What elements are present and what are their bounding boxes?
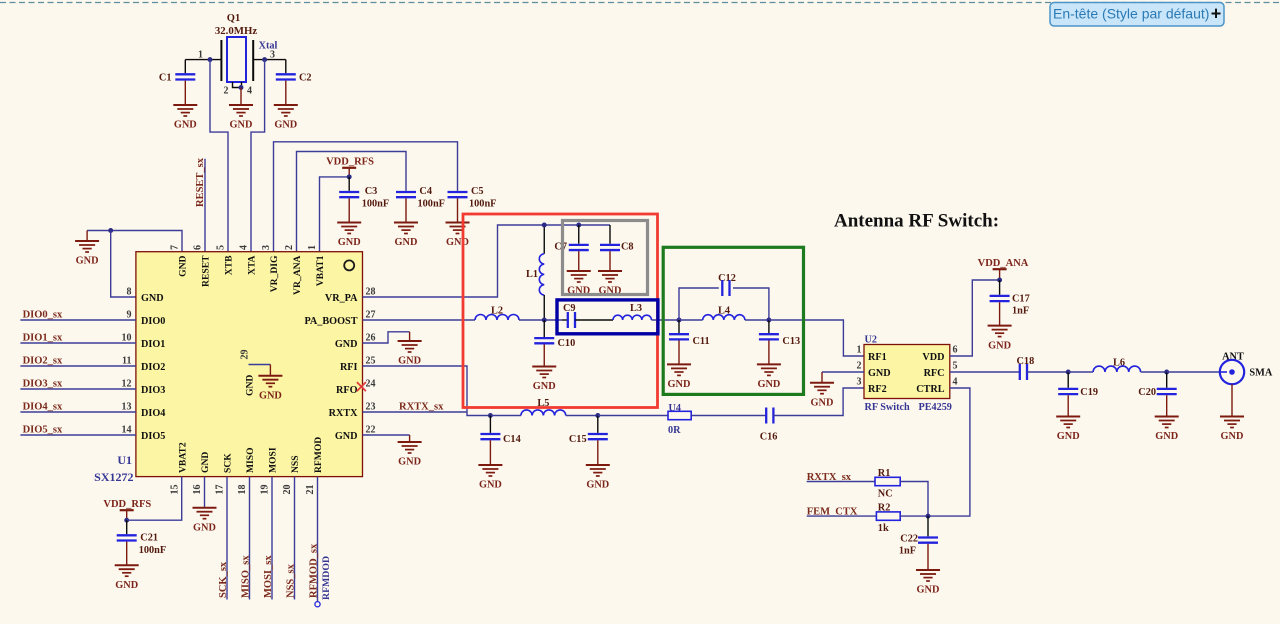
svg-text:DIO0_sx: DIO0_sx bbox=[23, 310, 63, 321]
wire pin3 VR_DIG to C5 bbox=[274, 142, 458, 252]
ground C13 bbox=[768, 341, 770, 365]
page top dashed border bbox=[0, 2, 1280, 4]
svg-text:C19: C19 bbox=[1080, 387, 1098, 398]
wire pin6 RESET bbox=[204, 159, 206, 252]
svg-text:5: 5 bbox=[953, 361, 958, 372]
header style button bbox=[1050, 3, 1224, 27]
svg-text:2: 2 bbox=[857, 361, 862, 372]
svg-text:GND: GND bbox=[868, 368, 891, 379]
node VDD_RFS bbox=[347, 174, 352, 179]
svg-text:16: 16 bbox=[192, 485, 203, 495]
wire DIO1_sx bbox=[20, 342, 135, 344]
ground U1 pin16 bbox=[193, 507, 217, 509]
svg-text:21: 21 bbox=[305, 485, 316, 495]
svg-text:GND: GND bbox=[586, 480, 609, 491]
svg-text:24: 24 bbox=[366, 379, 376, 390]
svg-text:3: 3 bbox=[857, 377, 862, 388]
svg-text:DIO2_sx: DIO2_sx bbox=[23, 356, 63, 367]
wire pin28 VR_PA to C7/C8 rail bbox=[363, 225, 611, 297]
svg-text:SMA: SMA bbox=[1249, 368, 1272, 379]
svg-text:C5: C5 bbox=[471, 186, 484, 197]
svg-text:GND: GND bbox=[259, 390, 282, 401]
wire RFMOD bbox=[317, 477, 319, 602]
svg-text:VDD_ANA: VDD_ANA bbox=[978, 258, 1029, 269]
svg-text:C12: C12 bbox=[718, 273, 736, 284]
svg-text:8: 8 bbox=[127, 287, 132, 298]
wire RFC to C18 bbox=[950, 371, 1020, 373]
svg-text:C1: C1 bbox=[159, 73, 172, 84]
wire NSS_sx bbox=[294, 477, 296, 600]
svg-text:GND: GND bbox=[398, 356, 421, 367]
svg-text:U1: U1 bbox=[117, 453, 132, 467]
svg-text:C17: C17 bbox=[1012, 294, 1030, 305]
wire MOSI_sx bbox=[271, 477, 273, 600]
node C13 bbox=[766, 318, 771, 323]
wire DIO0_sx bbox=[20, 319, 135, 321]
svg-text:RESET: RESET bbox=[201, 255, 212, 287]
svg-text:14: 14 bbox=[122, 425, 132, 436]
red X no-connect on RFO bbox=[357, 382, 366, 391]
svg-text:GND: GND bbox=[174, 120, 197, 131]
ground C4 bbox=[405, 198, 407, 222]
node C11 bbox=[677, 318, 682, 323]
wire pin22 to ground bbox=[363, 434, 410, 436]
ground C3 bbox=[348, 198, 350, 222]
svg-text:GND: GND bbox=[668, 379, 691, 390]
wire SCK_sx bbox=[226, 477, 228, 600]
svg-text:DIO3_sx: DIO3_sx bbox=[23, 379, 63, 390]
node L1 top bbox=[542, 223, 547, 228]
svg-text:MISO_sx: MISO_sx bbox=[240, 555, 251, 598]
svg-text:0R: 0R bbox=[668, 425, 681, 436]
svg-text:U2: U2 bbox=[865, 335, 877, 346]
svg-text:11: 11 bbox=[122, 356, 131, 367]
wire MISO_sx bbox=[249, 477, 251, 600]
node C7 top bbox=[576, 223, 581, 228]
svg-text:C11: C11 bbox=[693, 336, 710, 347]
svg-text:2: 2 bbox=[224, 86, 229, 97]
ground pin26 bbox=[409, 332, 411, 341]
svg-text:4: 4 bbox=[238, 245, 249, 250]
wire DIO4_sx bbox=[20, 411, 135, 413]
svg-text:23: 23 bbox=[366, 402, 376, 413]
svg-text:DIO4: DIO4 bbox=[141, 408, 165, 419]
wire Q1 pin3 to XTA bbox=[251, 60, 265, 252]
svg-text:CTRL: CTRL bbox=[916, 384, 945, 395]
svg-text:C20: C20 bbox=[1138, 387, 1156, 398]
svg-text:6: 6 bbox=[953, 345, 958, 356]
RF switch U2 PE4259 body bbox=[864, 345, 950, 399]
node CTRL bbox=[926, 514, 931, 519]
node Q1 pin1 bbox=[208, 57, 213, 62]
svg-text:C15: C15 bbox=[569, 434, 587, 445]
svg-text:GND: GND bbox=[1057, 431, 1080, 442]
ground U1 pad bbox=[269, 365, 271, 376]
svg-text:5: 5 bbox=[215, 245, 226, 250]
node C20 bbox=[1164, 370, 1169, 375]
svg-text:GND: GND bbox=[141, 293, 164, 304]
svg-text:GND: GND bbox=[335, 339, 358, 350]
unconnected endpoint bbox=[315, 602, 320, 607]
ground U1 pins 7-8 bbox=[86, 231, 88, 242]
svg-text:C9: C9 bbox=[563, 303, 576, 314]
svg-text:C10: C10 bbox=[558, 338, 576, 349]
ground C10 bbox=[543, 344, 545, 366]
svg-text:MISO: MISO bbox=[245, 447, 256, 473]
svg-text:L1: L1 bbox=[526, 269, 538, 280]
svg-text:22: 22 bbox=[366, 425, 376, 436]
svg-text:4: 4 bbox=[247, 86, 252, 97]
svg-text:DIO4_sx: DIO4_sx bbox=[23, 402, 63, 413]
ground U2 pin2 bbox=[821, 372, 823, 383]
svg-text:DIO3: DIO3 bbox=[141, 385, 165, 396]
ground C15 bbox=[597, 440, 599, 465]
svg-text:RESET_sx: RESET_sx bbox=[195, 157, 206, 207]
svg-text:XTB: XTB bbox=[224, 255, 235, 275]
svg-text:GND: GND bbox=[245, 375, 256, 396]
svg-text:C8: C8 bbox=[621, 242, 634, 253]
blue highlight box bbox=[557, 300, 658, 334]
svg-text:DIO1_sx: DIO1_sx bbox=[23, 333, 63, 344]
wire VDD_RFS to pin15 bbox=[127, 477, 182, 521]
svg-text:C13: C13 bbox=[782, 336, 800, 347]
svg-text:+: + bbox=[1211, 4, 1222, 24]
wire pin27 PA_BOOST bbox=[363, 319, 476, 321]
svg-text:100nF: 100nF bbox=[362, 198, 389, 209]
node crystal case ground bbox=[239, 85, 244, 90]
svg-text:DIO2: DIO2 bbox=[141, 362, 165, 373]
svg-text:VR_ANA: VR_ANA bbox=[292, 255, 303, 295]
svg-text:DIO5_sx: DIO5_sx bbox=[23, 425, 63, 436]
ground pin22 bbox=[409, 435, 411, 442]
svg-text:29: 29 bbox=[240, 350, 251, 360]
ground C14 bbox=[489, 440, 491, 465]
wire R1 to node bbox=[900, 482, 928, 517]
svg-text:RXTX: RXTX bbox=[329, 408, 359, 419]
svg-text:1: 1 bbox=[307, 245, 318, 250]
svg-text:VBAT2: VBAT2 bbox=[178, 442, 189, 473]
svg-text:27: 27 bbox=[366, 310, 376, 321]
svg-text:NC: NC bbox=[878, 489, 893, 500]
svg-text:GND: GND bbox=[274, 120, 297, 131]
svg-text:C21: C21 bbox=[140, 533, 158, 544]
svg-text:GND: GND bbox=[115, 580, 138, 591]
node C15 bbox=[595, 413, 600, 418]
capacitor C12 bypass wire bbox=[679, 288, 719, 320]
node VDD_RFS C21 bbox=[124, 518, 129, 523]
svg-text:32.0MHz: 32.0MHz bbox=[215, 25, 257, 37]
svg-text:Q1: Q1 bbox=[227, 13, 240, 24]
svg-text:GND: GND bbox=[1155, 431, 1178, 442]
svg-text:2: 2 bbox=[284, 245, 295, 250]
ground C22 bbox=[927, 544, 929, 570]
svg-text:GND: GND bbox=[1221, 431, 1244, 442]
node C10/L1 bbox=[542, 318, 547, 323]
wire U2 VDD to VDD_ANA bbox=[950, 280, 1000, 356]
svg-text:MOSI_sx: MOSI_sx bbox=[263, 555, 274, 598]
svg-text:VBAT1: VBAT1 bbox=[315, 255, 326, 286]
svg-text:GND: GND bbox=[988, 340, 1011, 351]
svg-text:13: 13 bbox=[122, 402, 132, 413]
svg-text:RF Switch: RF Switch bbox=[865, 402, 911, 413]
node Q1 pin3 bbox=[262, 57, 267, 62]
svg-text:C2: C2 bbox=[299, 73, 312, 84]
svg-text:RF2: RF2 bbox=[868, 384, 887, 395]
wire pin26 to ground bbox=[363, 332, 410, 343]
svg-text:28: 28 bbox=[366, 287, 376, 298]
svg-text:DIO0: DIO0 bbox=[141, 316, 165, 327]
svg-text:GND: GND bbox=[338, 237, 361, 248]
svg-text:GND: GND bbox=[395, 237, 418, 248]
svg-text:100nF: 100nF bbox=[469, 198, 496, 209]
svg-text:17: 17 bbox=[214, 485, 225, 495]
svg-text:GND: GND bbox=[479, 480, 502, 491]
svg-text:1k: 1k bbox=[878, 523, 889, 534]
svg-text:GND: GND bbox=[193, 522, 216, 533]
svg-text:SCK: SCK bbox=[223, 453, 234, 473]
svg-text:9: 9 bbox=[127, 310, 132, 321]
svg-text:VR_PA: VR_PA bbox=[325, 293, 358, 304]
svg-text:GND: GND bbox=[178, 255, 189, 276]
svg-text:4: 4 bbox=[953, 377, 958, 388]
svg-text:GND: GND bbox=[230, 120, 253, 131]
svg-text:DIO5: DIO5 bbox=[141, 431, 165, 442]
svg-text:1: 1 bbox=[857, 345, 862, 356]
svg-text:RFMDOD: RFMDOD bbox=[321, 556, 332, 600]
svg-text:VDD_RFS: VDD_RFS bbox=[103, 499, 151, 510]
svg-text:GND: GND bbox=[533, 381, 556, 392]
svg-text:C16: C16 bbox=[760, 431, 778, 442]
svg-text:GND: GND bbox=[446, 237, 469, 248]
svg-text:C7: C7 bbox=[554, 242, 567, 253]
wire filter out to RF1 bbox=[769, 320, 864, 356]
svg-text:18: 18 bbox=[237, 485, 248, 495]
svg-text:En-tête (Style par défaut): En-tête (Style par défaut) bbox=[1053, 5, 1209, 21]
svg-text:PA_BOOST: PA_BOOST bbox=[304, 316, 357, 327]
wire L3 to green box bbox=[652, 319, 680, 321]
svg-text:NSS: NSS bbox=[290, 455, 301, 473]
svg-text:12: 12 bbox=[122, 379, 132, 390]
svg-text:DIO1: DIO1 bbox=[141, 339, 165, 350]
wire pin1 VBAT1 to VDD_RFS bbox=[320, 177, 350, 252]
wire L5 row to U4 bbox=[598, 415, 668, 417]
svg-text:15: 15 bbox=[169, 485, 180, 495]
ground C19 bbox=[1067, 395, 1069, 416]
gray highlight box bbox=[563, 221, 648, 295]
node C19 bbox=[1066, 370, 1071, 375]
svg-text:GND: GND bbox=[76, 256, 99, 267]
svg-text:VDD: VDD bbox=[922, 352, 944, 363]
svg-text:GND: GND bbox=[757, 379, 780, 390]
svg-text:20: 20 bbox=[282, 485, 293, 495]
ground C2 bbox=[285, 81, 287, 105]
op-amp U1 SX1272 body bbox=[136, 252, 363, 477]
svg-text:100nF: 100nF bbox=[139, 545, 166, 556]
red highlight box bbox=[463, 214, 658, 408]
ground C20 bbox=[1166, 395, 1168, 416]
svg-text:26: 26 bbox=[366, 333, 376, 344]
wire R2 to node bbox=[900, 515, 928, 517]
node VDD_ANA bbox=[997, 278, 1002, 283]
wire L2 to node bbox=[519, 319, 562, 321]
svg-text:C3: C3 bbox=[365, 186, 378, 197]
ground C7 bbox=[578, 251, 580, 271]
svg-text:RF1: RF1 bbox=[868, 352, 887, 363]
svg-text:RXTX_sx: RXTX_sx bbox=[399, 402, 444, 413]
svg-text:GND: GND bbox=[200, 452, 211, 473]
svg-text:RFMOD: RFMOD bbox=[313, 437, 324, 473]
svg-text:GND: GND bbox=[917, 585, 940, 596]
svg-text:PE4259: PE4259 bbox=[919, 402, 952, 413]
wire Q1 pin1 to XTB bbox=[210, 60, 228, 252]
wire pin25 RFI down to L5 row bbox=[363, 366, 491, 416]
svg-text:RFI: RFI bbox=[340, 362, 358, 373]
wire DIO5_sx bbox=[20, 434, 135, 436]
svg-text:19: 19 bbox=[259, 485, 270, 495]
svg-text:L3: L3 bbox=[630, 303, 642, 314]
svg-text:100nF: 100nF bbox=[418, 198, 445, 209]
wire pin7 to ground bbox=[87, 231, 182, 252]
wire U2 pin2 to ground bbox=[822, 371, 864, 373]
svg-text:VDD_RFS: VDD_RFS bbox=[326, 157, 374, 168]
ground C8 bbox=[609, 251, 611, 271]
ground SMA bbox=[1231, 384, 1233, 416]
net label RXTX_sx at pin23 bbox=[363, 411, 468, 413]
svg-text:RFO: RFO bbox=[336, 385, 358, 396]
svg-text:XTA: XTA bbox=[247, 255, 258, 275]
wire pin16 gnd bbox=[204, 477, 206, 508]
svg-text:GND: GND bbox=[811, 397, 834, 408]
svg-text:1nF: 1nF bbox=[1012, 306, 1029, 317]
ground C11 bbox=[678, 341, 680, 365]
ground C17 bbox=[999, 302, 1001, 325]
svg-text:C4: C4 bbox=[419, 186, 432, 197]
svg-text:SCK_sx: SCK_sx bbox=[218, 561, 229, 598]
node C14 bbox=[488, 413, 493, 418]
svg-text:C14: C14 bbox=[503, 434, 521, 445]
svg-text:10: 10 bbox=[122, 333, 132, 344]
ground C5 bbox=[457, 198, 459, 222]
wire DIO3_sx bbox=[20, 388, 135, 390]
ground crystal case bbox=[240, 88, 242, 106]
svg-text:SX1272: SX1272 bbox=[94, 470, 133, 484]
svg-text:RFMOD_sx: RFMOD_sx bbox=[308, 543, 319, 598]
ground C1 bbox=[184, 81, 186, 105]
svg-text:3: 3 bbox=[261, 245, 272, 250]
svg-text:Antenna RF Switch:: Antenna RF Switch: bbox=[834, 211, 999, 232]
svg-text:3: 3 bbox=[270, 50, 275, 61]
svg-text:7: 7 bbox=[169, 245, 180, 250]
wire L6 to antenna bbox=[1167, 371, 1220, 373]
svg-text:VR_DIG: VR_DIG bbox=[269, 255, 280, 292]
wire U4 to C16 bbox=[691, 415, 766, 417]
svg-text:25: 25 bbox=[366, 356, 376, 367]
green highlight box bbox=[663, 247, 803, 394]
wire C16 to RF2 bbox=[773, 388, 864, 416]
svg-text:6: 6 bbox=[192, 245, 203, 250]
svg-text:RFC: RFC bbox=[924, 368, 945, 379]
svg-text:MOSI: MOSI bbox=[268, 447, 279, 473]
svg-text:GND: GND bbox=[335, 431, 358, 442]
wire DIO2_sx bbox=[20, 365, 135, 367]
svg-text:1: 1 bbox=[198, 50, 203, 61]
wire C18 to node bbox=[1027, 371, 1068, 373]
svg-text:1nF: 1nF bbox=[899, 546, 916, 557]
wire pin2 VR_ANA to C4 bbox=[297, 152, 407, 252]
wire FEM_CTX to R2 bbox=[807, 515, 877, 517]
wire RXTX to R1 bbox=[807, 481, 875, 483]
ground C21 bbox=[126, 542, 128, 566]
node gnd branch bbox=[108, 228, 113, 233]
svg-text:GND: GND bbox=[398, 457, 421, 468]
svg-text:C22: C22 bbox=[900, 534, 918, 545]
svg-text:NSS_sx: NSS_sx bbox=[285, 563, 296, 598]
wire gnd to pin8 bbox=[111, 231, 136, 298]
wire U2 CTRL down bbox=[928, 388, 970, 516]
